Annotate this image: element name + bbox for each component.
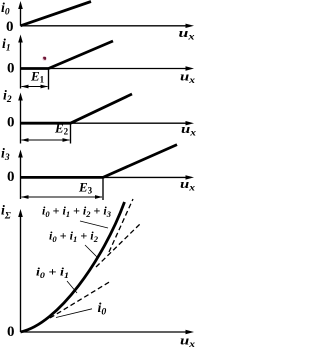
- leader for i0+i1+i2: [85, 245, 97, 257]
- red speck artifact: [42, 56, 47, 61]
- leader for i0: [56, 309, 92, 318]
- svg-text:0: 0: [7, 169, 15, 185]
- dashed continuation line top: [109, 199, 133, 252]
- E1 dimension tick: [48, 69, 50, 90]
- y-axis plot2: [18, 35, 23, 89]
- svg-text:0: 0: [7, 115, 15, 131]
- y-axis plot1: [18, 1, 23, 26]
- current line i2 plot3: [21, 94, 133, 123]
- y-axis plot3: [18, 93, 23, 144]
- main sum curve: [21, 202, 125, 332]
- E1 dimension arrows: [21, 85, 48, 89]
- dashed continuation line lower: [50, 281, 111, 318]
- x-axis plot2: [21, 66, 195, 70]
- x-axis plot5: [21, 330, 195, 334]
- x-axis plot1: [21, 24, 195, 28]
- y-axis plot4: [18, 150, 23, 200]
- E2 dimension tick: [70, 123, 72, 143]
- current line i1 plot2 (flat then rising): [21, 41, 114, 69]
- y-axis plot5: [18, 209, 23, 332]
- current line i3 plot4: [21, 145, 178, 178]
- dashed continuation line middle: [96, 224, 140, 267]
- x-axis plot4: [21, 175, 195, 179]
- leader for i0+i1: [67, 281, 77, 293]
- current line i0 plot1: [21, 2, 92, 26]
- E2 dimension arrows: [21, 138, 70, 142]
- x-axis plot3: [21, 121, 195, 125]
- svg-text:0: 0: [7, 61, 15, 77]
- leader for top label: [80, 221, 108, 228]
- E3 dimension arrows: [21, 195, 103, 199]
- svg-text:0: 0: [7, 324, 15, 340]
- E3 dimension tick: [102, 177, 104, 200]
- svg-text:0: 0: [6, 19, 14, 35]
- svg-text:i0 + i1 + i2 + i3: i0 + i1 + i2 + i3: [42, 204, 112, 220]
